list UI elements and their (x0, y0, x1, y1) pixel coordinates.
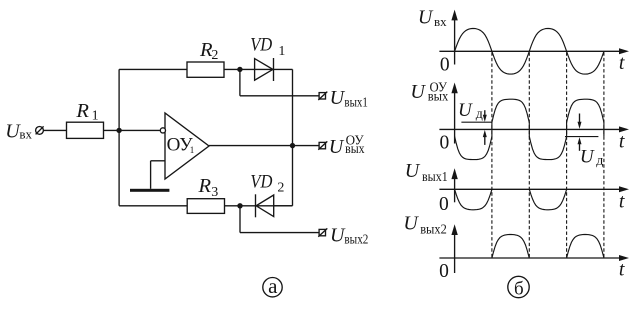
svg-text:вых2: вых2 (420, 223, 447, 238)
wire VD2 anode to output bus (274, 205, 293, 207)
node B junction R3/VD2 (237, 203, 242, 208)
svg-text:t: t (619, 259, 625, 281)
diode VD1 (255, 58, 274, 81)
label Uvyx2 plot4 (403, 213, 446, 238)
svg-text:VD: VD (250, 35, 272, 56)
wire node B down (239, 206, 241, 233)
annotation Ud left down arrow (483, 110, 487, 122)
label VD2 (250, 172, 284, 196)
svg-text:U: U (403, 213, 419, 235)
wire feedback vertical bus (118, 69, 120, 205)
op-amp U1 triangle (165, 113, 209, 179)
svg-text:t: t (619, 52, 625, 74)
label Uvyx1 (330, 87, 368, 111)
svg-text:вых2: вых2 (344, 233, 368, 248)
ground bar (130, 189, 169, 192)
svg-text:вых: вых (345, 142, 365, 157)
label R2 (199, 39, 218, 63)
svg-text:U: U (418, 7, 434, 29)
curve Uvyx2 lobe 1 (492, 235, 529, 259)
dashed timing line 3 (566, 52, 568, 258)
svg-text:1: 1 (190, 145, 195, 155)
svg-text:U: U (580, 146, 595, 167)
svg-text:U: U (458, 100, 473, 121)
label Uvyx OU plot2 (410, 80, 448, 104)
axis plot4 Uvyx2 (439, 224, 629, 273)
label circled b (508, 276, 529, 299)
svg-text:вх: вх (434, 14, 447, 29)
axis plot2 Uvyx OU (439, 83, 629, 144)
label Ud right (580, 146, 604, 168)
dashed timing line 1 (491, 52, 493, 258)
resistor R2 (187, 62, 224, 77)
annotation Ud right down arrow (578, 114, 582, 129)
wire op-amp output (209, 145, 319, 147)
axis plot1 Uvx (439, 10, 629, 65)
svg-text:0: 0 (439, 261, 449, 282)
label circled a (263, 274, 282, 298)
curve Uvyx OU rectified with diode steps (455, 99, 604, 159)
wire non-inverting input step (151, 161, 165, 189)
svg-text:вых1: вых1 (422, 170, 448, 185)
wire input terminal to R1 (43, 129, 66, 131)
curve Uvyx1 lobe 2 (529, 189, 566, 210)
op-amp inverting input bubble (160, 128, 165, 133)
wire VD2 branch up to op-amp output (292, 146, 294, 206)
label Uvyx OU (329, 133, 365, 158)
label Uvyx2 (330, 224, 368, 247)
wire top feedback to R2 (119, 68, 187, 70)
wire to Uvyx2 terminal (240, 232, 319, 234)
label Uvx plot1 (418, 7, 447, 30)
node Uvx input terminal (36, 126, 44, 134)
label VD1 (250, 35, 285, 59)
label Ud left (458, 100, 483, 122)
annotation Ud right tick (565, 136, 598, 138)
svg-text:U: U (330, 87, 346, 109)
node Uvyx2 output terminal (318, 228, 327, 236)
annotation Ud left tick (461, 121, 492, 123)
label Uvyx1 plot3 (405, 160, 448, 185)
annotation Ud left up arrow (483, 130, 487, 145)
svg-text:1: 1 (92, 109, 99, 124)
wire to Uvyx1 terminal (240, 95, 319, 97)
svg-text:вых1: вых1 (344, 96, 368, 111)
svg-text:0: 0 (439, 194, 449, 215)
svg-text:д: д (476, 107, 483, 122)
svg-text:t: t (619, 130, 625, 152)
svg-text:0: 0 (440, 54, 450, 75)
svg-text:R: R (75, 100, 89, 122)
wire node A down (239, 69, 241, 95)
dashed timing line 4 (603, 52, 605, 258)
node A junction R2/VD1 (237, 67, 242, 72)
svg-text:б: б (514, 279, 524, 300)
svg-text:вх: вх (19, 126, 32, 141)
svg-text:вых: вых (428, 90, 449, 105)
svg-text:2: 2 (211, 48, 218, 63)
node feedback junction at inverting input (116, 128, 121, 133)
label Uvx input (5, 121, 32, 143)
svg-text:t: t (619, 190, 625, 212)
dashed timing line 2 (528, 52, 530, 258)
svg-text:а: а (268, 274, 278, 298)
axis plot3 Uvyx1 (439, 168, 629, 202)
resistor R3 (187, 199, 224, 214)
svg-text:R: R (198, 175, 212, 197)
node Uvyx OU output terminal (318, 141, 327, 149)
curve Uvyx1 lobe 1 (455, 189, 492, 210)
annotation Ud right up arrow (578, 137, 582, 151)
svg-text:VD: VD (250, 172, 272, 193)
svg-text:U: U (410, 81, 426, 103)
wire R2 to VD1 anode (224, 68, 274, 70)
wire bottom feedback to R3 (119, 205, 187, 207)
wire VD1 branch down to op-amp output (292, 69, 294, 145)
svg-text:1: 1 (278, 44, 285, 59)
label OU1 op-amp (167, 134, 195, 155)
resistor R1 (67, 122, 104, 138)
node output junction (290, 143, 295, 148)
curve Uvyx2 lobe 2 (567, 235, 604, 259)
svg-text:2: 2 (277, 181, 284, 196)
node Uvyx1 output terminal (318, 92, 327, 100)
wire R3 to VD2 cathode (225, 205, 293, 207)
svg-text:0: 0 (440, 133, 450, 154)
svg-text:U: U (329, 136, 345, 158)
svg-text:3: 3 (211, 185, 218, 200)
wire VD1 cathode to output bus (274, 68, 293, 70)
curve sine Uvx (455, 29, 604, 75)
label R3 (198, 175, 219, 200)
label R1 (75, 100, 98, 123)
diode VD2 (256, 194, 274, 217)
wire R1 to op-amp inverting input (104, 129, 161, 131)
svg-text:U: U (405, 160, 421, 182)
svg-text:д: д (596, 153, 603, 168)
